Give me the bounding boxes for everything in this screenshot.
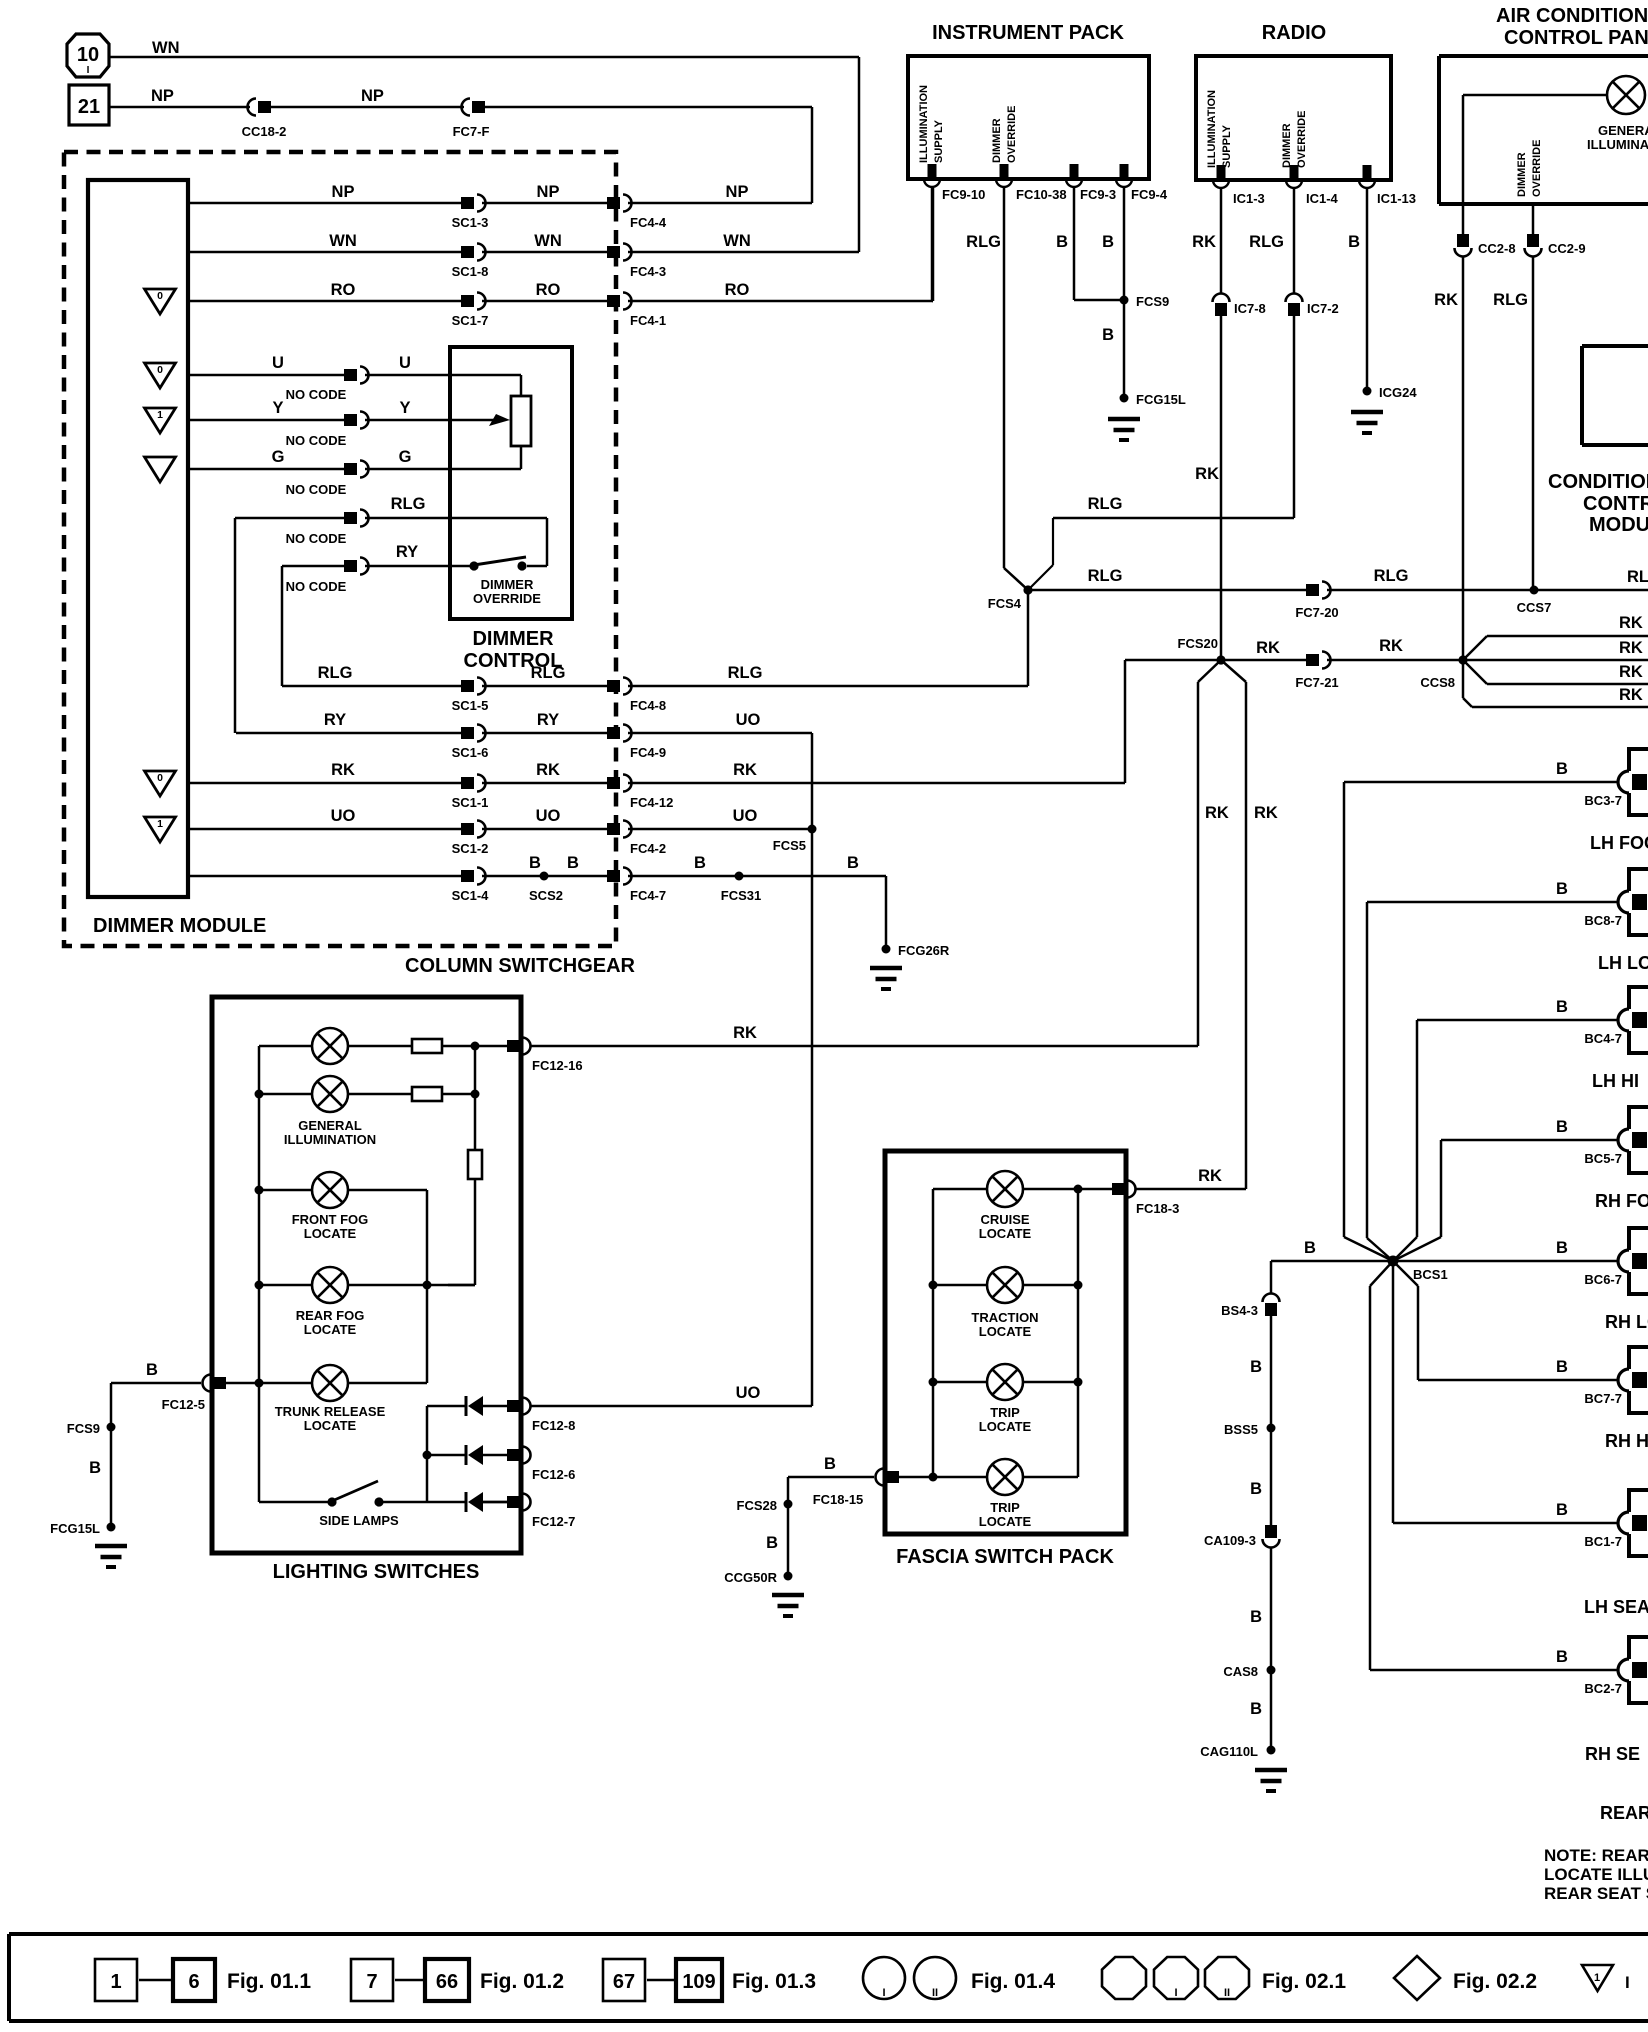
svg-text:IC7-2: IC7-2 [1307, 301, 1339, 316]
wire RLG row [282, 685, 461, 688]
svg-text:BC1-7: BC1-7 [1584, 1534, 1622, 1549]
svg-text:DIMMER: DIMMER [472, 628, 554, 650]
svg-text:FC12-8: FC12-8 [532, 1418, 575, 1433]
label RK fan 2 [1619, 639, 1643, 657]
wire RK SC1-1 to FC4-12 [482, 782, 607, 785]
wire B chain 4 [1270, 1547, 1273, 1670]
svg-text:NP: NP [332, 183, 355, 201]
label UO row-mid [536, 807, 561, 825]
svg-text:Fig. 01.4: Fig. 01.4 [971, 1970, 1055, 1993]
label LH SEA [1584, 1597, 1648, 1617]
splice SC1-8 [452, 244, 489, 280]
svg-text:CONTROL PANEL: CONTROL PANEL [1504, 27, 1648, 49]
label RADIO [1262, 22, 1326, 44]
wire RLG to dimmer override switch [365, 518, 547, 566]
legend octagon II [1205, 1957, 1249, 1999]
svg-text:BSS5: BSS5 [1224, 1422, 1258, 1437]
node FCG15L-left [50, 1521, 115, 1536]
svg-text:SUPPLY: SUPPLY [1221, 124, 1233, 168]
svg-text:LH LO: LH LO [1598, 953, 1648, 973]
wire U to potentiometer [365, 375, 521, 396]
ground CCG50R [772, 1595, 804, 1616]
splice CC2-8 [1455, 234, 1516, 257]
svg-text:B: B [1556, 1118, 1568, 1136]
lamp cruise locate [987, 1171, 1023, 1207]
wire B star to BC2-7 [1370, 1261, 1618, 1670]
connector FC12-8 [507, 1398, 575, 1434]
node trip-right [1074, 1378, 1083, 1387]
svg-text:G: G [399, 448, 412, 466]
legend fig 02.2 [1453, 1970, 1537, 1993]
label NP row-mid [537, 183, 560, 201]
node CCS8 [1420, 655, 1467, 690]
svg-text:NP: NP [361, 87, 384, 105]
svg-text:CC2-8: CC2-8 [1478, 241, 1516, 256]
svg-text:FCG15L: FCG15L [1136, 392, 1186, 407]
label U row-left [272, 354, 284, 372]
svg-text:WN: WN [329, 232, 357, 250]
label RH FO [1595, 1191, 1648, 1211]
wire RY upper row [282, 566, 344, 686]
legend square 6 [173, 1959, 215, 2001]
label SIDE LAMPS [319, 1513, 399, 1528]
instrument pack box [908, 56, 1149, 179]
legend dash 2 [395, 1979, 423, 1982]
splice BS4-3 [1221, 1294, 1279, 1319]
label RLG right edge [1627, 568, 1648, 586]
svg-text:NO CODE: NO CODE [286, 531, 347, 546]
wire diode2 wires [427, 1454, 507, 1457]
label B near star [1304, 1239, 1316, 1257]
label RK riser-left [1205, 804, 1229, 822]
svg-text:1: 1 [1594, 1972, 1600, 1984]
connector FC4-3 [607, 244, 666, 280]
pin IC1-13 [1359, 165, 1416, 206]
svg-text:RH HI: RH HI [1605, 1431, 1648, 1451]
wire RLG CC2-9 to CCS7 [1532, 256, 1535, 589]
svg-text:NOTE: REAR: NOTE: REAR [1544, 1846, 1648, 1865]
svg-text:ICG24: ICG24 [1379, 385, 1417, 400]
label B radio top [1348, 233, 1360, 251]
svg-text:RK: RK [1192, 233, 1216, 251]
wire RLG from IC1-4 [1293, 188, 1296, 294]
label RK row-right [733, 761, 757, 779]
svg-text:NO CODE: NO CODE [286, 482, 347, 497]
wire RK FCS20 to FC7-21 [1221, 659, 1306, 662]
svg-text:Fig. 02.2: Fig. 02.2 [1453, 1970, 1537, 1993]
label GENERAL ILLUMINATION ac-panel [1587, 123, 1648, 152]
label NP top-1 [151, 87, 174, 105]
wire RLG main row [1028, 589, 1306, 592]
connector 10 (octagon power feed) [67, 34, 109, 77]
radio box [1196, 56, 1391, 180]
node FCS31 [721, 872, 761, 904]
wire trip row [933, 1381, 1078, 1384]
wire lamp1 resistor to FC12-16 [442, 1045, 507, 1048]
lamp trip locate 1 [987, 1364, 1023, 1400]
svg-text:FC12-7: FC12-7 [532, 1514, 575, 1529]
label WN top [152, 39, 180, 57]
label B row-right-2 [847, 854, 859, 872]
label TRIP LOCATE 1 [979, 1405, 1032, 1434]
svg-text:FC4-12: FC4-12 [630, 795, 673, 810]
wire RK FC7-21 to CCS8 [1327, 659, 1463, 662]
wire B to FC12-5 [111, 1383, 201, 1527]
svg-text:LOCATE: LOCATE [979, 1226, 1032, 1241]
label RK row-mid [536, 761, 560, 779]
legend bar [9, 1934, 1648, 2021]
wire G row [188, 468, 344, 471]
svg-text:GENERAL: GENERAL [1598, 123, 1648, 138]
wire B from IC1-13 [1366, 188, 1369, 391]
label INSTRUMENT PACK [932, 22, 1124, 44]
label DIMMER CONTROL [464, 628, 563, 672]
wire trip2 row [899, 1476, 1078, 1479]
wire RO FC4-1 to instrument pack [628, 188, 933, 301]
wire Y to wiper arrow [365, 414, 510, 426]
svg-text:DIMMER: DIMMER [991, 118, 1003, 163]
legend diamond [1394, 1956, 1440, 2000]
svg-text:SCS2: SCS2 [529, 888, 563, 903]
connector BC4-7 [1584, 985, 1648, 1055]
label REAR [1600, 1803, 1648, 1823]
svg-text:IC1-3: IC1-3 [1233, 191, 1265, 206]
node CCS7 [1517, 586, 1552, 616]
label RK row-left [331, 761, 355, 779]
svg-text:ILLUMINATION: ILLUMINATION [1206, 90, 1218, 168]
wire ac dimmer override to CC2-9 [1532, 204, 1535, 240]
svg-text:10: 10 [77, 44, 99, 66]
svg-text:Fig. 01.2: Fig. 01.2 [480, 1970, 564, 1993]
svg-text:RY: RY [396, 543, 418, 561]
svg-text:7: 7 [366, 1971, 377, 1993]
wire B row [188, 875, 461, 878]
svg-text:INSTRUMENT PACK: INSTRUMENT PACK [932, 22, 1124, 44]
node trunk-left [255, 1379, 264, 1388]
wire B FC4-7 to ground riser [628, 876, 886, 949]
svg-text:FC10-38: FC10-38 [1016, 187, 1067, 202]
label B left chain [89, 1459, 101, 1477]
wire B star to BC1-7 [1393, 1261, 1618, 1523]
node BSS5 [1224, 1422, 1275, 1437]
label DIMMER OVERRIDE instrument [991, 106, 1018, 163]
label B BC3-7 [1556, 760, 1568, 778]
svg-text:IC7-8: IC7-8 [1234, 301, 1266, 316]
connector FC12-5 [162, 1375, 226, 1413]
node FCS4 junction [988, 518, 1053, 611]
wire lamp2 resistor to bus [442, 1093, 475, 1096]
label RK fan 4 [1619, 686, 1643, 704]
svg-text:RK: RK [1198, 1167, 1222, 1185]
svg-text:BS4-3: BS4-3 [1221, 1303, 1258, 1318]
svg-text:FCG15L: FCG15L [50, 1521, 100, 1536]
svg-text:Fig. 01.1: Fig. 01.1 [227, 1970, 311, 1993]
svg-text:Fig. 02.1: Fig. 02.1 [1262, 1970, 1346, 1993]
wire RK fan line 2 [1463, 659, 1648, 662]
svg-text:SC1-3: SC1-3 [452, 215, 489, 230]
wire RY row [236, 732, 461, 735]
svg-text:NO CODE: NO CODE [286, 387, 347, 402]
splice FC7-21 [1295, 652, 1338, 691]
label RK before CCS8 [1379, 637, 1403, 655]
label U row-right [399, 354, 411, 372]
label RLG main-1 [1088, 567, 1123, 585]
svg-text:LOCATE: LOCATE [304, 1322, 357, 1337]
label RLG row-mid [531, 664, 566, 682]
svg-text:CCS8: CCS8 [1420, 675, 1455, 690]
svg-text:B: B [1556, 998, 1568, 1016]
label B BC2-7 [1556, 1648, 1568, 1666]
svg-text:IC1-4: IC1-4 [1306, 191, 1339, 206]
lamp rear fog locate [312, 1267, 348, 1303]
svg-text:Fig. 01.3: Fig. 01.3 [732, 1970, 816, 1993]
triangle symbol RK [145, 771, 176, 796]
svg-text:B: B [1250, 1358, 1262, 1376]
connector BC3-7 [1584, 747, 1648, 817]
svg-text:B: B [1556, 760, 1568, 778]
ground FCG15L-left [95, 1546, 127, 1567]
label B at FC12-5 [146, 1361, 158, 1379]
legend dash 3 [647, 1979, 674, 1982]
label NP row-left [332, 183, 355, 201]
label WN row-right [723, 232, 751, 250]
wire RK FCS20 to fascia [1221, 660, 1246, 1189]
svg-text:OVERRIDE: OVERRIDE [1531, 140, 1543, 197]
connector BC5-7 [1584, 1105, 1648, 1175]
svg-text:ILLUMINATION: ILLUMINATION [284, 1132, 376, 1147]
label B under FC9-4 top [1102, 233, 1114, 251]
svg-text:SIDE LAMPS: SIDE LAMPS [319, 1513, 399, 1528]
svg-text:UO: UO [536, 807, 561, 825]
wire NP FC4-4 to riser [628, 202, 812, 205]
connector BC7-7 [1584, 1345, 1648, 1415]
svg-text:RLG: RLG [728, 664, 763, 682]
label TRUNK RELEASE LOCATE [275, 1404, 386, 1433]
diode D1 [466, 1396, 483, 1416]
svg-text:6: 6 [188, 1971, 199, 1993]
wire RK CC2-8 to CCS8 [1462, 256, 1465, 660]
svg-text:CONDITIONIN: CONDITIONIN [1548, 471, 1648, 493]
label REAR FOG LOCATE [296, 1308, 365, 1337]
wire B SC1-4 to FC4-7 [482, 875, 607, 878]
switch SIDE LAMPS [327, 1481, 383, 1507]
svg-text:B: B [567, 854, 579, 872]
wire Y row [188, 419, 344, 422]
svg-text:RK: RK [1379, 637, 1403, 655]
svg-text:109: 109 [682, 1971, 715, 1993]
wire G to potentiometer bottom [365, 446, 521, 469]
wire RK fan line 1 [1463, 636, 1648, 660]
splice Y no-code [286, 412, 369, 449]
svg-text:RLG: RLG [1088, 567, 1123, 585]
svg-text:WN: WN [723, 232, 751, 250]
lamp traction locate [987, 1267, 1023, 1303]
svg-text:Y: Y [272, 399, 283, 417]
svg-text:II: II [932, 1987, 938, 1999]
label TRIP LOCATE 2 [979, 1500, 1032, 1529]
label RH LO [1605, 1312, 1648, 1332]
svg-text:GENERAL: GENERAL [298, 1118, 362, 1133]
svg-text:LOCATE: LOCATE [979, 1324, 1032, 1339]
connector FC12-16 [507, 1038, 583, 1074]
svg-text:I: I [1174, 1987, 1177, 1999]
svg-text:FC4-7: FC4-7 [630, 888, 666, 903]
diode D2 [466, 1445, 483, 1465]
svg-text:BC4-7: BC4-7 [1584, 1031, 1622, 1046]
label RY upper [396, 543, 418, 561]
wire B chain top [1270, 1261, 1273, 1294]
legend octagon plain [1102, 1957, 1146, 1999]
svg-text:II: II [1224, 1987, 1230, 1999]
node FCS28 [737, 1498, 793, 1513]
wire B BC5-7 riser [1393, 1140, 1618, 1261]
triangle symbol Y [145, 408, 176, 433]
svg-text:CCS7: CCS7 [1517, 600, 1552, 615]
connector BC6-7 [1584, 1226, 1648, 1296]
label B BC1-7 [1556, 1501, 1568, 1519]
ground FCG26R [870, 968, 902, 989]
label B fascia chain [766, 1534, 778, 1552]
node lamp2-right [471, 1090, 480, 1099]
pin IC1-4 [1286, 165, 1339, 206]
label GENERAL ILLUMINATION [284, 1118, 376, 1147]
legend fig 02.1 [1262, 1970, 1346, 1993]
node trip2-left [929, 1473, 938, 1482]
label RH SE [1585, 1744, 1640, 1764]
wire trunk row [226, 1285, 427, 1383]
wire RK fascia [1136, 1188, 1246, 1191]
splice CA109-3 [1204, 1525, 1280, 1548]
splice SC1-1 [452, 775, 489, 811]
lamp general illumination 2 [312, 1076, 348, 1112]
svg-text:RLG: RLG [318, 664, 353, 682]
svg-text:FCS9: FCS9 [1136, 294, 1169, 309]
svg-text:FC7-F: FC7-F [453, 124, 490, 139]
wire NP row [188, 202, 461, 205]
label UO row-left [331, 807, 356, 825]
wire RLG from FC10-38 [1004, 187, 1028, 590]
svg-text:NO CODE: NO CODE [286, 579, 347, 594]
svg-text:REAR SEAT S: REAR SEAT S [1544, 1884, 1648, 1903]
svg-text:RK: RK [1254, 804, 1278, 822]
splice SC1-4 [452, 868, 490, 904]
label DIMMER MODULE [93, 915, 266, 937]
label RY row-mid [537, 711, 559, 729]
wire diode3 to FC12-7 [483, 1501, 507, 1504]
wire WN SC1-8 to FC4-3 [482, 251, 607, 254]
wire NP FC7-F to riser [485, 107, 812, 203]
svg-text:SC1-1: SC1-1 [452, 795, 489, 810]
connector FC4-7 [607, 868, 666, 904]
wire RLG IC7-2 down to row [1053, 316, 1294, 518]
svg-text:RK: RK [1205, 804, 1229, 822]
svg-text:U: U [272, 354, 284, 372]
connector FC4-9 [607, 725, 666, 761]
svg-text:RLG: RLG [1493, 291, 1528, 309]
label RY row-left [324, 711, 346, 729]
svg-text:LH SEA: LH SEA [1584, 1597, 1648, 1617]
node rear-fog-mid [423, 1281, 432, 1290]
svg-text:TRACTION: TRACTION [971, 1310, 1038, 1325]
svg-text:LOCATE ILLU: LOCATE ILLU [1544, 1865, 1648, 1884]
label RLG upper [391, 495, 426, 513]
svg-text:B: B [1250, 1480, 1262, 1498]
node cruise-right [1074, 1185, 1083, 1194]
svg-text:FC12-16: FC12-16 [532, 1058, 583, 1073]
label CRUISE LOCATE [979, 1212, 1032, 1241]
dimmer control box [450, 347, 572, 619]
svg-text:LIGHTING SWITCHES: LIGHTING SWITCHES [273, 1561, 480, 1583]
lamp GENERAL ILLUMINATION ac-panel [1607, 76, 1645, 114]
svg-text:B: B [1250, 1608, 1262, 1626]
label G row-right [399, 448, 412, 466]
svg-text:CCG50R: CCG50R [724, 1570, 777, 1585]
svg-text:BC8-7: BC8-7 [1584, 913, 1622, 928]
svg-text:UO: UO [736, 1384, 761, 1402]
svg-text:DIMMER: DIMMER [1516, 152, 1528, 197]
connector FC18-3 [1112, 1181, 1179, 1217]
svg-text:MODU: MODU [1589, 514, 1648, 536]
svg-text:RK: RK [536, 761, 560, 779]
svg-text:B: B [146, 1361, 158, 1379]
node diode-bus-mid [423, 1451, 432, 1460]
legend circle I [863, 1957, 905, 1999]
wire RLG SC1-5 to FC4-8 [482, 685, 607, 688]
wire B chain 2 [1270, 1316, 1273, 1428]
label RH HI [1605, 1431, 1648, 1451]
svg-text:DIMMER: DIMMER [481, 577, 534, 592]
wire RLG FCS4 vertical [1027, 590, 1030, 686]
label RLG under FC10-38 [966, 233, 1001, 251]
svg-text:FCS20: FCS20 [1178, 636, 1218, 651]
legend square 7 [351, 1959, 393, 2001]
legend square 67 [603, 1959, 645, 2001]
svg-text:Y: Y [399, 399, 410, 417]
wire right dropper bus [474, 1046, 477, 1150]
label RLG row-right [728, 664, 763, 682]
svg-text:OVERRIDE: OVERRIDE [473, 591, 541, 606]
pin FC9-4 [1116, 164, 1168, 202]
label ILLUMINATION SUPPLY radio [1206, 90, 1233, 168]
label B under FC9-3 [1056, 233, 1068, 251]
label RK under CC2-8 [1434, 291, 1458, 309]
svg-text:FC9-10: FC9-10 [942, 187, 985, 202]
node trip-left [929, 1378, 938, 1387]
node traction-left [929, 1281, 938, 1290]
svg-text:TRIP: TRIP [990, 1500, 1020, 1515]
label G row-left [272, 448, 285, 466]
wire B BC3-7 riser [1344, 782, 1618, 1261]
wire NP from connector 21 [109, 106, 250, 109]
label LH LO [1598, 953, 1648, 973]
label RK FCS20-right [1256, 639, 1280, 657]
splice SC1-3 [452, 195, 489, 231]
svg-text:SUPPLY: SUPPLY [933, 119, 945, 163]
svg-text:B: B [1556, 1501, 1568, 1519]
label AIR CONDITIONING CONTROL PANEL [1496, 5, 1648, 49]
wire NP SC1-3 to FC4-4 [482, 202, 607, 205]
svg-text:NP: NP [151, 87, 174, 105]
label B BC7-7 [1556, 1358, 1568, 1376]
label RLG upper horizontal [1088, 495, 1123, 513]
legend fig 01.3 [732, 1970, 816, 1993]
svg-text:FC4-3: FC4-3 [630, 264, 666, 279]
svg-text:I: I [1625, 1973, 1630, 1992]
ground CAG110L [1255, 1770, 1287, 1791]
svg-text:B: B [1556, 1239, 1568, 1257]
label RK fascia [1198, 1167, 1222, 1185]
label RLG row-left [318, 664, 353, 682]
